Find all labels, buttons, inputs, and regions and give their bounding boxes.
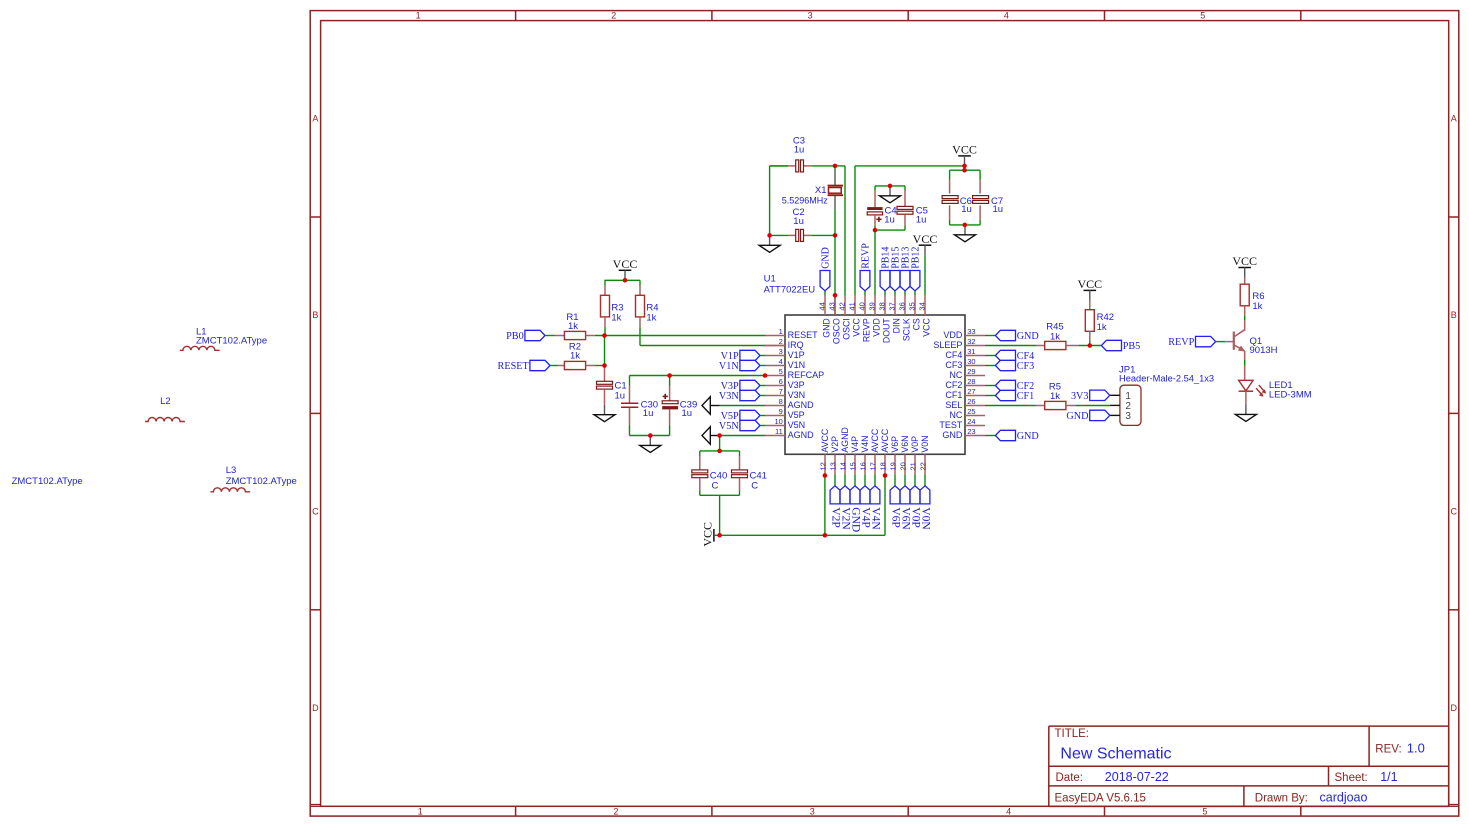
svg-text:7: 7 bbox=[779, 387, 783, 396]
svg-text:VDD: VDD bbox=[943, 330, 963, 340]
svg-text:4: 4 bbox=[779, 357, 783, 366]
svg-text:ZMCT102.AType: ZMCT102.AType bbox=[226, 476, 297, 487]
svg-text:1: 1 bbox=[416, 10, 421, 20]
svg-text:3: 3 bbox=[808, 10, 813, 20]
svg-text:SLEEP: SLEEP bbox=[933, 340, 962, 350]
svg-text:6: 6 bbox=[779, 377, 783, 386]
svg-text:GND: GND bbox=[1066, 411, 1088, 422]
svg-text:18: 18 bbox=[878, 462, 887, 470]
svg-text:Drawn By:: Drawn By: bbox=[1255, 793, 1308, 805]
svg-text:1k: 1k bbox=[1252, 301, 1262, 312]
svg-text:CF1: CF1 bbox=[945, 390, 962, 400]
svg-text:GND: GND bbox=[942, 430, 963, 440]
svg-text:29: 29 bbox=[967, 367, 975, 376]
svg-text:V4N: V4N bbox=[869, 507, 881, 530]
svg-text:9013H: 9013H bbox=[1250, 345, 1278, 356]
svg-text:2: 2 bbox=[613, 806, 618, 816]
svg-text:VCC: VCC bbox=[701, 522, 715, 547]
svg-text:NC: NC bbox=[949, 370, 962, 380]
svg-text:PB0: PB0 bbox=[506, 331, 524, 342]
svg-text:V1P: V1P bbox=[788, 350, 805, 360]
svg-text:44: 44 bbox=[818, 302, 827, 310]
svg-text:41: 41 bbox=[848, 302, 857, 310]
svg-text:28: 28 bbox=[967, 377, 975, 386]
svg-text:2: 2 bbox=[611, 10, 616, 20]
svg-text:4: 4 bbox=[1004, 10, 1009, 20]
svg-text:15: 15 bbox=[848, 462, 857, 470]
svg-text:V1N: V1N bbox=[788, 360, 806, 370]
svg-text:5.5296MHz: 5.5296MHz bbox=[782, 195, 829, 205]
svg-text:CF3: CF3 bbox=[1017, 361, 1035, 372]
svg-text:2018-07-22: 2018-07-22 bbox=[1105, 770, 1169, 784]
svg-text:26: 26 bbox=[967, 397, 975, 406]
svg-text:27: 27 bbox=[967, 387, 975, 396]
svg-text:V6N: V6N bbox=[900, 435, 910, 452]
svg-text:4: 4 bbox=[1006, 806, 1011, 816]
svg-text:EasyEDA V5.6.15: EasyEDA V5.6.15 bbox=[1055, 793, 1146, 805]
svg-text:CF2: CF2 bbox=[945, 380, 962, 390]
svg-text:New Schematic: New Schematic bbox=[1060, 746, 1171, 763]
svg-text:VCC: VCC bbox=[1077, 277, 1102, 291]
svg-text:40: 40 bbox=[858, 302, 867, 310]
svg-text:ATT7022EU: ATT7022EU bbox=[764, 285, 816, 296]
svg-text:10: 10 bbox=[774, 417, 782, 426]
svg-text:1u: 1u bbox=[993, 204, 1004, 215]
svg-text:9: 9 bbox=[779, 407, 783, 416]
svg-text:V2P: V2P bbox=[830, 436, 840, 453]
svg-text:V5N: V5N bbox=[719, 421, 739, 432]
svg-text:17: 17 bbox=[868, 462, 877, 470]
svg-text:1u: 1u bbox=[916, 214, 927, 225]
svg-text:C: C bbox=[712, 480, 719, 491]
svg-text:43: 43 bbox=[828, 302, 837, 310]
svg-text:Header-Male-2.54_1x3: Header-Male-2.54_1x3 bbox=[1119, 374, 1214, 384]
svg-text:B: B bbox=[1451, 310, 1457, 320]
svg-text:34: 34 bbox=[918, 302, 927, 310]
svg-text:VCC: VCC bbox=[913, 232, 938, 246]
svg-text:cardjoao: cardjoao bbox=[1320, 791, 1368, 805]
svg-text:C: C bbox=[751, 480, 758, 491]
svg-text:PB12: PB12 bbox=[911, 247, 922, 269]
svg-text:20: 20 bbox=[898, 462, 907, 470]
svg-text:VCC: VCC bbox=[613, 257, 638, 271]
svg-text:AVCC: AVCC bbox=[870, 428, 880, 452]
svg-text:AVCC: AVCC bbox=[880, 428, 890, 452]
svg-text:V3P: V3P bbox=[788, 380, 805, 390]
svg-text:1u: 1u bbox=[643, 408, 654, 419]
svg-text:V3N: V3N bbox=[719, 391, 739, 402]
svg-text:DIN: DIN bbox=[891, 318, 901, 333]
svg-text:1u: 1u bbox=[615, 391, 626, 402]
svg-text:25: 25 bbox=[967, 407, 975, 416]
svg-text:SCLK: SCLK bbox=[901, 318, 911, 341]
svg-text:V4P: V4P bbox=[850, 436, 860, 453]
svg-text:42: 42 bbox=[838, 302, 847, 310]
svg-text:11: 11 bbox=[775, 427, 783, 436]
svg-text:GND: GND bbox=[821, 318, 831, 338]
svg-text:1u: 1u bbox=[793, 216, 804, 227]
svg-text:C: C bbox=[312, 506, 319, 516]
svg-text:1u: 1u bbox=[794, 145, 805, 156]
svg-text:13: 13 bbox=[828, 462, 837, 470]
svg-text:OSCO: OSCO bbox=[831, 318, 841, 344]
svg-text:B: B bbox=[312, 310, 318, 320]
svg-text:REFCAP: REFCAP bbox=[788, 370, 825, 380]
svg-text:TITLE:: TITLE: bbox=[1055, 728, 1090, 740]
svg-text:31: 31 bbox=[967, 347, 975, 356]
svg-text:GND: GND bbox=[1017, 431, 1039, 442]
svg-text:8: 8 bbox=[779, 397, 783, 406]
svg-text:Sheet:: Sheet: bbox=[1335, 772, 1368, 784]
svg-text:VCC: VCC bbox=[952, 143, 977, 157]
svg-text:1u: 1u bbox=[961, 204, 972, 215]
svg-text:L3: L3 bbox=[226, 465, 237, 476]
svg-text:CF1: CF1 bbox=[1017, 391, 1035, 402]
svg-text:1/1: 1/1 bbox=[1380, 770, 1397, 784]
svg-text:V6P: V6P bbox=[890, 436, 900, 453]
svg-text:REV:: REV: bbox=[1375, 744, 1401, 756]
svg-text:33: 33 bbox=[967, 327, 975, 336]
svg-text:ZMCT102.AType: ZMCT102.AType bbox=[196, 336, 267, 347]
svg-text:3: 3 bbox=[779, 347, 783, 356]
svg-text:32: 32 bbox=[967, 337, 975, 346]
svg-text:2: 2 bbox=[779, 337, 783, 346]
svg-text:1k: 1k bbox=[611, 312, 621, 323]
svg-text:1k: 1k bbox=[646, 312, 656, 323]
svg-text:1k: 1k bbox=[1050, 391, 1060, 402]
svg-text:IRQ: IRQ bbox=[788, 340, 804, 350]
svg-text:1k: 1k bbox=[1050, 332, 1060, 343]
svg-text:38: 38 bbox=[878, 302, 887, 310]
svg-text:CF4: CF4 bbox=[945, 350, 962, 360]
svg-text:PB5: PB5 bbox=[1123, 341, 1141, 352]
svg-text:5: 5 bbox=[1202, 806, 1207, 816]
svg-text:VDD: VDD bbox=[871, 318, 881, 337]
svg-text:AGND: AGND bbox=[788, 430, 815, 440]
svg-text:3: 3 bbox=[1125, 411, 1131, 422]
svg-text:1u: 1u bbox=[682, 408, 693, 419]
svg-text:CS: CS bbox=[911, 318, 921, 330]
svg-text:16: 16 bbox=[858, 462, 867, 470]
svg-text:REVP: REVP bbox=[861, 318, 871, 342]
svg-text:VCC: VCC bbox=[1232, 254, 1257, 268]
svg-text:5: 5 bbox=[1200, 10, 1205, 20]
svg-text:1k: 1k bbox=[570, 351, 580, 362]
svg-text:DOUT: DOUT bbox=[881, 318, 891, 344]
svg-text:D: D bbox=[1451, 703, 1458, 713]
svg-text:23: 23 bbox=[967, 427, 975, 436]
svg-text:24: 24 bbox=[967, 417, 975, 426]
svg-text:OSCI: OSCI bbox=[841, 318, 851, 340]
svg-text:VCC: VCC bbox=[921, 318, 931, 337]
svg-text:TEST: TEST bbox=[939, 420, 963, 430]
svg-text:36: 36 bbox=[898, 302, 907, 310]
svg-text:ZMCT102.AType: ZMCT102.AType bbox=[12, 476, 83, 487]
svg-text:39: 39 bbox=[868, 302, 877, 310]
svg-text:REVP: REVP bbox=[861, 243, 872, 269]
svg-text:3V3: 3V3 bbox=[1071, 391, 1089, 402]
svg-text:V4N: V4N bbox=[860, 435, 870, 452]
svg-text:19: 19 bbox=[888, 462, 897, 470]
svg-text:CF3: CF3 bbox=[945, 360, 962, 370]
svg-text:RESET: RESET bbox=[498, 361, 530, 372]
svg-text:12: 12 bbox=[818, 462, 827, 470]
svg-text:1k: 1k bbox=[1097, 322, 1107, 333]
svg-text:NC: NC bbox=[949, 410, 962, 420]
svg-text:A: A bbox=[312, 114, 318, 124]
svg-text:5: 5 bbox=[779, 367, 783, 376]
svg-text:REVP: REVP bbox=[1168, 337, 1194, 348]
svg-text:AGND: AGND bbox=[788, 400, 815, 410]
svg-text:V0N: V0N bbox=[919, 507, 931, 530]
svg-text:A: A bbox=[1451, 114, 1457, 124]
svg-text:GND: GND bbox=[1017, 331, 1039, 342]
svg-text:V3N: V3N bbox=[788, 390, 806, 400]
svg-text:30: 30 bbox=[967, 357, 975, 366]
svg-text:V5N: V5N bbox=[788, 420, 806, 430]
svg-text:37: 37 bbox=[888, 302, 897, 310]
svg-text:1.0: 1.0 bbox=[1407, 741, 1425, 756]
svg-text:SEL: SEL bbox=[945, 400, 962, 410]
svg-text:L2: L2 bbox=[160, 396, 171, 407]
svg-text:V5P: V5P bbox=[788, 410, 805, 420]
svg-text:D: D bbox=[312, 703, 319, 713]
svg-text:GND: GND bbox=[821, 247, 832, 269]
svg-text:1k: 1k bbox=[568, 321, 578, 332]
svg-text:V0N: V0N bbox=[920, 435, 930, 452]
svg-text:3: 3 bbox=[810, 806, 815, 816]
svg-text:V1N: V1N bbox=[719, 361, 739, 372]
svg-text:C: C bbox=[1451, 506, 1458, 516]
svg-text:22: 22 bbox=[918, 462, 927, 470]
svg-text:AVCC: AVCC bbox=[820, 428, 830, 452]
svg-text:VCC: VCC bbox=[851, 318, 861, 337]
svg-text:1: 1 bbox=[779, 327, 783, 336]
svg-text:21: 21 bbox=[908, 462, 917, 470]
svg-text:Date:: Date: bbox=[1056, 772, 1084, 784]
svg-text:1u: 1u bbox=[884, 214, 895, 225]
svg-text:14: 14 bbox=[838, 462, 847, 470]
svg-text:1: 1 bbox=[418, 806, 423, 816]
svg-text:RESET: RESET bbox=[788, 330, 819, 340]
svg-text:35: 35 bbox=[908, 302, 917, 310]
svg-text:V0P: V0P bbox=[910, 436, 920, 453]
svg-text:LED-3MM: LED-3MM bbox=[1269, 389, 1312, 400]
svg-text:AGND: AGND bbox=[840, 427, 850, 452]
svg-text:U1: U1 bbox=[764, 274, 776, 285]
